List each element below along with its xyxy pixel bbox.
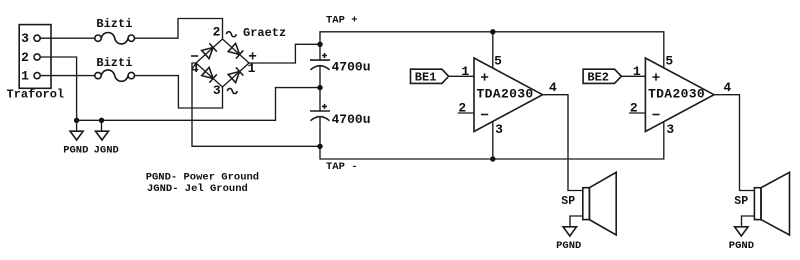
svg-text:2: 2	[21, 50, 29, 65]
svg-text:Graetz: Graetz	[243, 26, 286, 40]
bridge minus mark	[191, 55, 198, 57]
U1 pin 2 label	[458, 100, 466, 115]
TAP+ rail wire	[320, 32, 664, 68]
wire pin1 to fuse F2	[40, 75, 95, 77]
ground symbol SP1 PGND	[563, 227, 576, 236]
label Bizti F1	[96, 17, 132, 31]
capacitor C1 4700u	[310, 53, 330, 70]
label C2 4700u	[332, 112, 371, 127]
svg-text:TAP -: TAP -	[326, 161, 358, 173]
U1 pin 2 stub	[458, 112, 474, 114]
wire BE2 to U2 pin1	[621, 75, 645, 77]
flag BE2	[583, 69, 621, 84]
svg-text:5: 5	[494, 54, 502, 69]
legend JGND text	[147, 183, 248, 195]
bridge pin 1 label	[248, 61, 256, 76]
label C1 4700u	[332, 60, 371, 75]
speaker SP2	[754, 172, 789, 235]
svg-text:2: 2	[213, 25, 221, 40]
svg-text:TAP +: TAP +	[326, 15, 358, 27]
label JGND	[94, 144, 119, 156]
ground symbol JGND	[96, 120, 109, 140]
fuse F1 Bizti	[95, 33, 135, 44]
svg-text:PGND: PGND	[556, 240, 581, 252]
svg-text:Bizti: Bizti	[96, 56, 132, 70]
U2 pin 3 label	[666, 122, 674, 137]
flag BE1	[411, 69, 449, 84]
label SP1	[561, 195, 575, 208]
U1 pin 3 wire	[492, 122, 494, 159]
wire U1 output to SP1	[543, 95, 583, 191]
U1 pin 5 wire	[492, 32, 494, 68]
svg-text:2: 2	[630, 100, 638, 115]
bridge pin 3 label	[213, 83, 221, 98]
wire F1 to bridge node 2	[135, 19, 223, 40]
diode D4	[228, 67, 243, 82]
pin 2 label	[21, 50, 29, 65]
svg-text:5: 5	[665, 54, 673, 69]
svg-text:3: 3	[21, 31, 29, 46]
U1 label TDA2030	[477, 87, 534, 102]
legend PGND text	[146, 171, 259, 183]
pin 2 circle	[34, 54, 40, 60]
svg-text:BE2: BE2	[587, 70, 609, 84]
node dot U1 pin5	[490, 29, 495, 34]
TAP- rail wire	[320, 117, 664, 159]
node dot U1 pin3	[490, 156, 495, 161]
U1 pin 1 label	[461, 64, 469, 79]
svg-text:4: 4	[723, 80, 731, 95]
pin 1 circle	[34, 73, 40, 79]
op-amp U1 TDA2030	[474, 58, 543, 132]
U2 label TDA2030	[648, 87, 705, 102]
svg-text:SP: SP	[561, 195, 575, 208]
label PGND left	[63, 144, 88, 156]
node dot cap midpoint	[317, 85, 322, 90]
pin 3 circle	[34, 35, 40, 41]
speaker SP1	[583, 172, 616, 235]
diode D1	[202, 43, 217, 58]
label SP2	[734, 195, 748, 208]
diode D2	[228, 43, 243, 58]
svg-text:1: 1	[461, 64, 469, 79]
svg-text:Bizti: Bizti	[96, 17, 132, 31]
U2 pin 5 label	[665, 54, 673, 69]
svg-text:3: 3	[666, 122, 674, 137]
bridge ac mark top	[226, 32, 236, 37]
svg-text:4: 4	[549, 80, 557, 95]
svg-text:TDA2030: TDA2030	[477, 87, 534, 102]
svg-text:JGND: JGND	[94, 144, 119, 156]
U1 pin 4 label	[549, 80, 557, 95]
wire node4 to TAP- junction	[192, 63, 320, 146]
label Bizti F2	[96, 56, 132, 70]
svg-text:TDA2030: TDA2030	[648, 87, 705, 102]
wire SP1 to ground	[570, 216, 583, 227]
label TAP +	[326, 15, 358, 27]
op-amp U2 TDA2030	[645, 58, 714, 132]
svg-text:1: 1	[21, 69, 29, 84]
bridge pin 4 label	[191, 61, 199, 76]
svg-text:3: 3	[213, 83, 221, 98]
svg-text:1: 1	[633, 64, 641, 79]
bridge plus mark	[249, 52, 256, 59]
svg-text:4700u: 4700u	[332, 60, 371, 75]
label PGND SP2	[729, 240, 754, 252]
U2 minus mark	[652, 114, 659, 116]
wire F2 to bridge node 3	[135, 76, 223, 108]
ground symbol PGND left	[70, 120, 83, 140]
node dot jgnd	[99, 118, 104, 123]
capacitor C2 4700u	[310, 104, 330, 121]
pin 3 label	[21, 31, 29, 46]
label Graetz	[243, 26, 286, 40]
bridge ac mark bottom	[227, 88, 237, 93]
node dot node1 join	[317, 42, 322, 47]
pin 1 label	[21, 69, 29, 84]
U2 pin 2 stub	[629, 112, 645, 114]
label PGND SP1	[556, 240, 581, 252]
wire SP2 to ground	[742, 216, 755, 227]
U1 plus mark	[481, 73, 488, 80]
svg-text:PGND: PGND	[729, 240, 754, 252]
wire C1 bottom to midpoint	[319, 67, 321, 112]
diode D3	[202, 67, 217, 82]
svg-text:PGND- Power Ground: PGND- Power Ground	[146, 171, 259, 183]
bridge B1 Graetz diamond edges	[196, 39, 249, 87]
wire pin2 to ground rail	[40, 57, 76, 120]
U2 pin 2 label	[630, 100, 638, 115]
U2 pin 4 label	[723, 80, 731, 95]
U2 plus mark	[652, 73, 659, 80]
svg-text:4700u: 4700u	[332, 112, 371, 127]
svg-text:2: 2	[458, 100, 466, 115]
fuse F2 Bizti	[95, 70, 135, 81]
U1 pin 3 label	[495, 122, 503, 137]
node dot pin2 ground	[74, 118, 79, 123]
wire U2 output to SP2	[714, 95, 754, 191]
ground rail wire	[77, 88, 320, 121]
U1 pin 5 label	[494, 54, 502, 69]
svg-text:Traforol: Traforol	[7, 88, 65, 102]
svg-text:JGND- Jel Ground: JGND- Jel Ground	[147, 183, 248, 195]
label Traforol	[7, 88, 65, 102]
wire pin3 to fuse F1	[40, 37, 95, 39]
ground symbol SP2 PGND	[735, 227, 748, 236]
svg-text:PGND: PGND	[63, 144, 88, 156]
svg-text:BE1: BE1	[415, 70, 437, 84]
bridge pin 2 label	[213, 25, 221, 40]
wire node1 to cap C1	[249, 44, 320, 63]
wire BE1 to U1 pin1	[449, 75, 474, 77]
node dot node4 join	[317, 144, 322, 149]
U2 pin 1 label	[633, 64, 641, 79]
connector J1 Traforol body	[19, 25, 51, 89]
svg-text:3: 3	[495, 122, 503, 137]
svg-text:SP: SP	[734, 195, 748, 208]
label TAP -	[326, 161, 358, 173]
U1 minus mark	[481, 114, 488, 116]
